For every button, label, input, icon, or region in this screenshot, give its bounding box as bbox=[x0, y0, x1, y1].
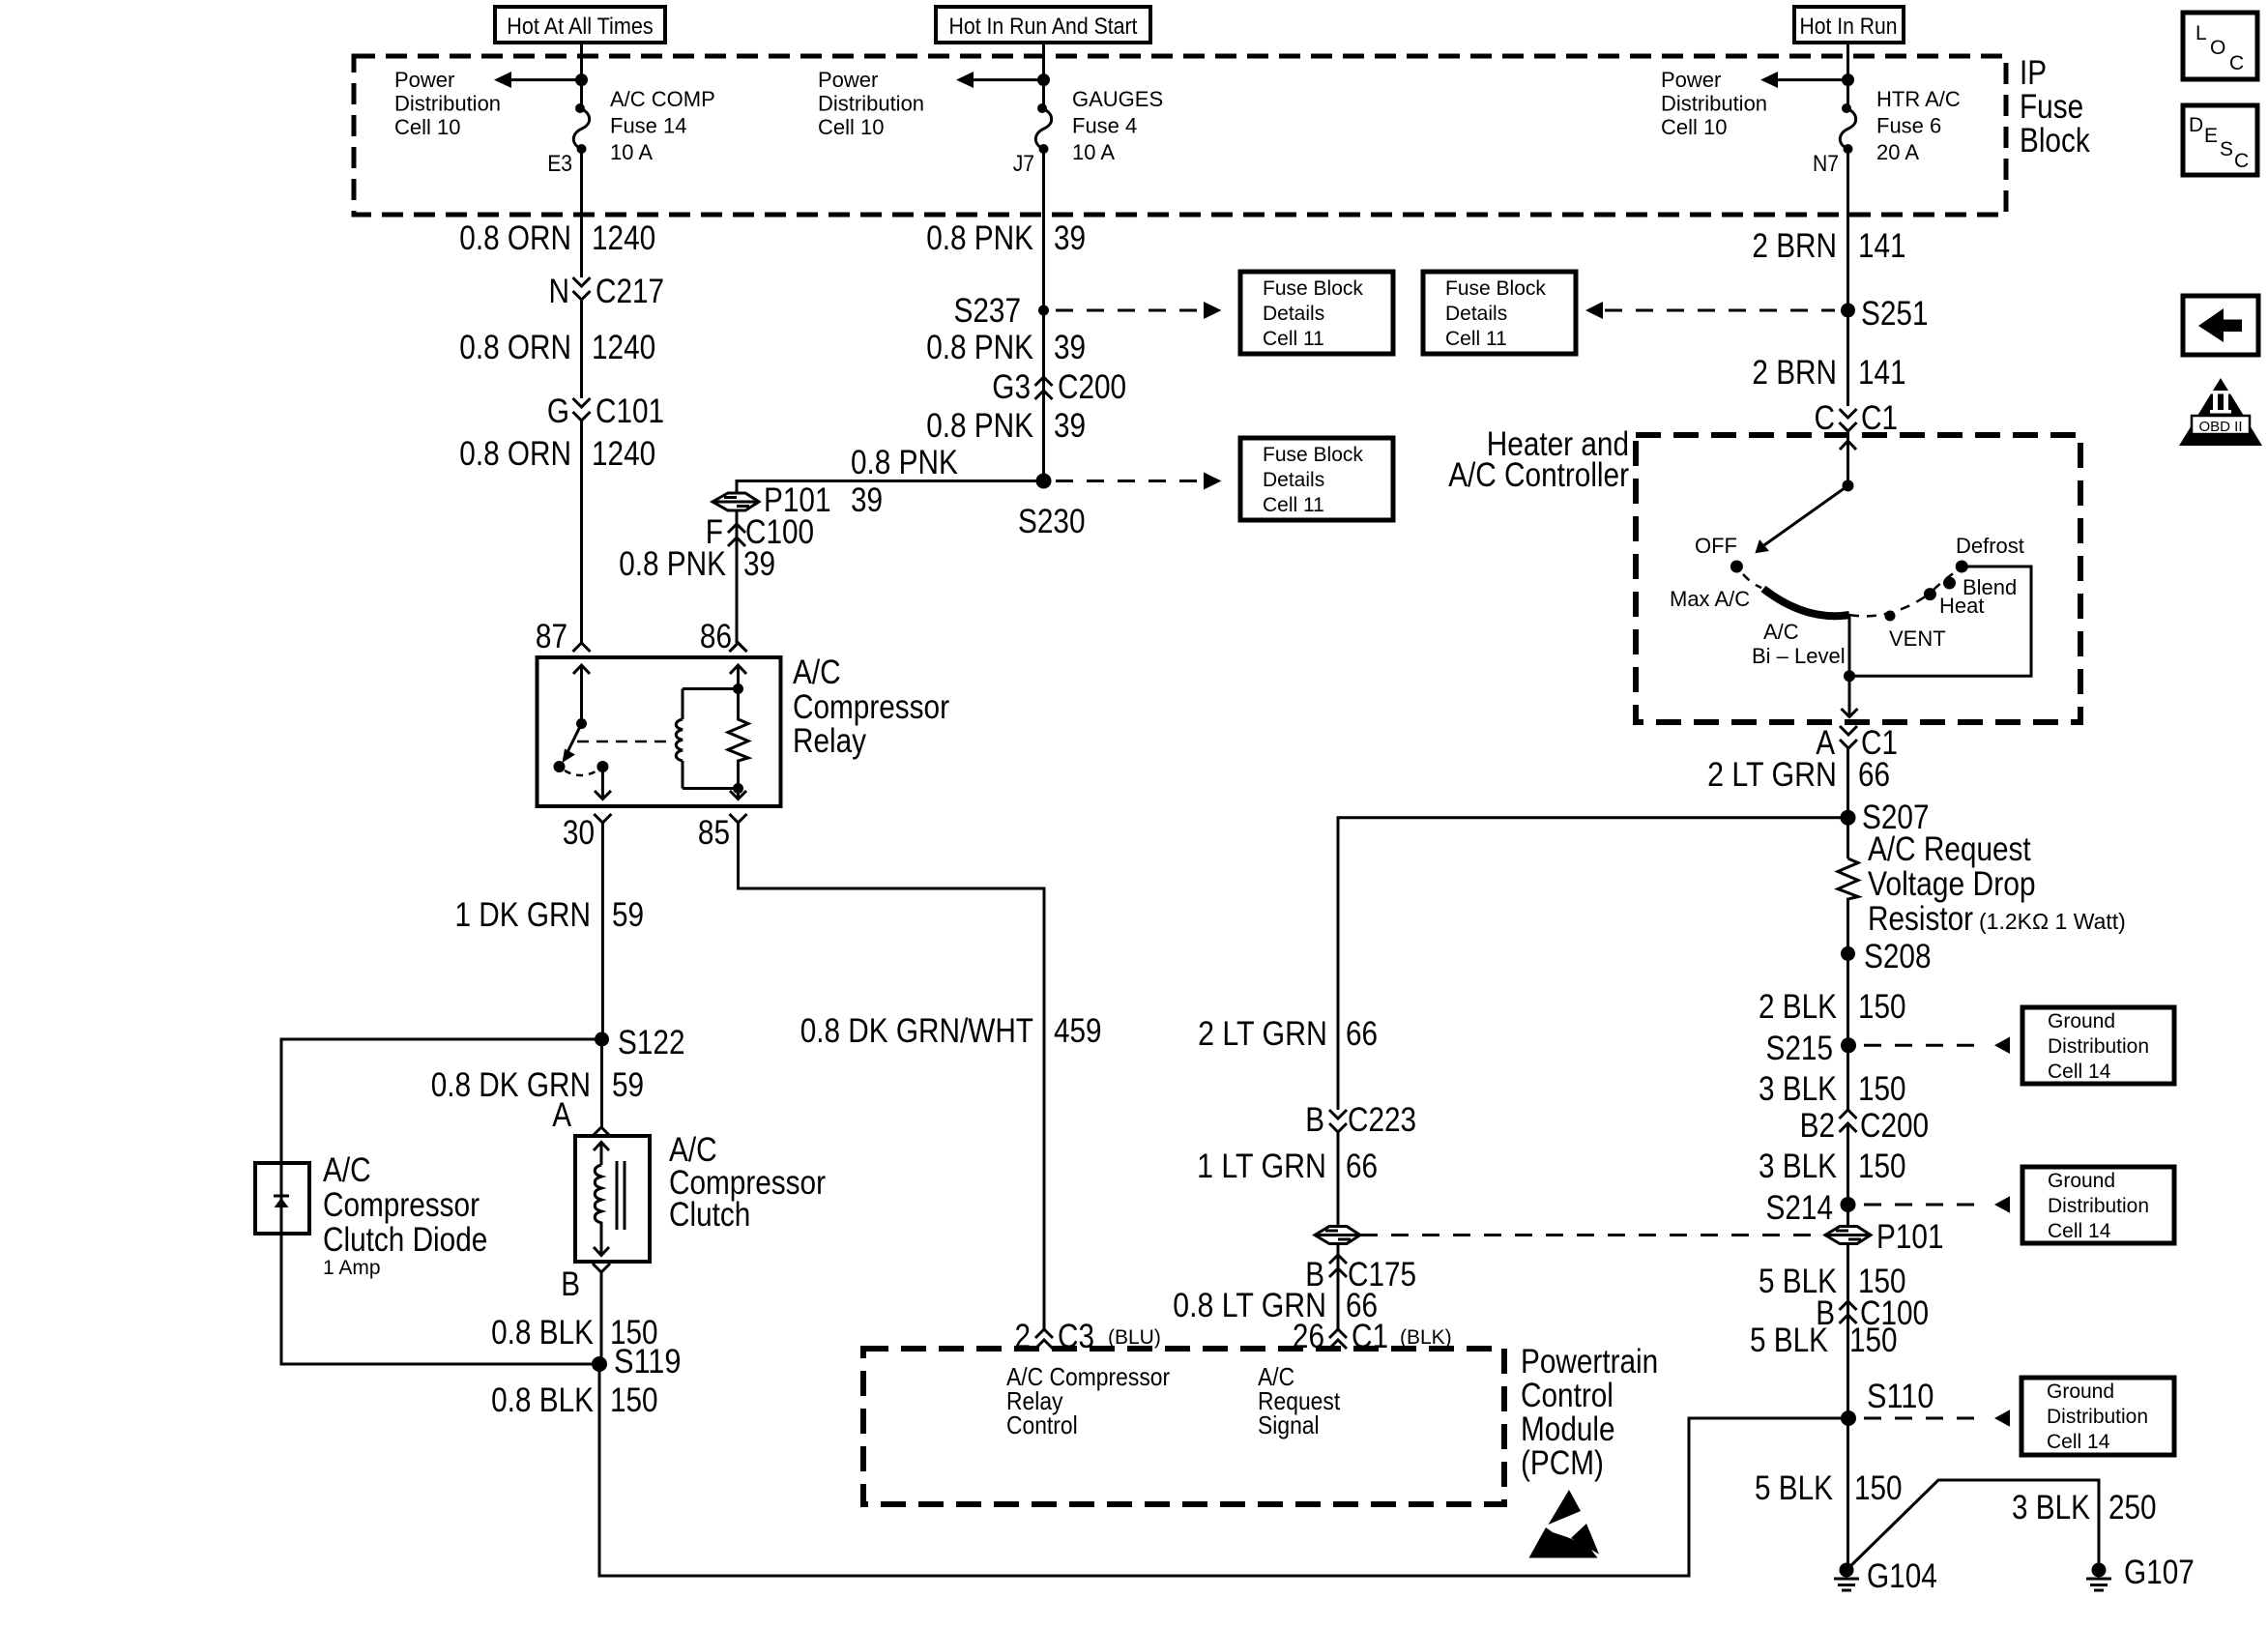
dashed arrow S251 to fuse block details 2 bbox=[1605, 309, 1835, 312]
svg-text:Hot At All Times: Hot At All Times bbox=[507, 14, 653, 40]
svg-text:2 BRN: 2 BRN bbox=[1752, 227, 1837, 265]
svg-text:P101: P101 bbox=[1876, 1218, 1944, 1256]
svg-text:Power: Power bbox=[1661, 68, 1721, 92]
svg-text:150: 150 bbox=[1858, 1148, 1906, 1185]
arrow to power distribution bbox=[509, 78, 582, 81]
svg-text:Cell 11: Cell 11 bbox=[1263, 328, 1324, 350]
svg-text:0.8 PNK: 0.8 PNK bbox=[926, 219, 1033, 257]
relay pin30 arrow down bbox=[595, 767, 611, 799]
svg-text:OBD II: OBD II bbox=[2198, 419, 2242, 435]
svg-text:B: B bbox=[1305, 1101, 1324, 1139]
relay contact 30b bbox=[596, 761, 608, 772]
svg-text:1 DK GRN: 1 DK GRN bbox=[455, 896, 592, 934]
node S251 bbox=[1841, 304, 1855, 318]
svg-text:59: 59 bbox=[612, 1066, 644, 1104]
svg-text:C101: C101 bbox=[596, 392, 664, 430]
svg-text:Cell 14: Cell 14 bbox=[2048, 1061, 2111, 1083]
node S214 bbox=[1841, 1197, 1856, 1212]
ground distribution box 1 bbox=[2022, 1007, 2174, 1084]
wire bbox=[1337, 1132, 1340, 1226]
svg-text:Fuse Block: Fuse Block bbox=[1263, 444, 1363, 466]
connector F C100 bbox=[736, 510, 739, 643]
svg-text:39: 39 bbox=[1054, 329, 1086, 366]
dashed grommet link C175 to P101 bbox=[1360, 1234, 1826, 1236]
svg-text:3 BLK: 3 BLK bbox=[2012, 1489, 2090, 1526]
svg-text:5 BLK: 5 BLK bbox=[1750, 1322, 1828, 1359]
wire bbox=[1042, 228, 1045, 481]
node top junction bbox=[1842, 73, 1854, 86]
svg-text:Distribution: Distribution bbox=[2047, 1406, 2148, 1428]
svg-text:Distribution: Distribution bbox=[1661, 92, 1767, 116]
svg-text:Clutch Diode: Clutch Diode bbox=[323, 1221, 487, 1259]
svg-text:C1: C1 bbox=[1861, 399, 1898, 437]
IP fuse block dashed box bbox=[354, 56, 2006, 215]
svg-text:A/C Controller: A/C Controller bbox=[1448, 456, 1629, 494]
wire bbox=[1846, 43, 1849, 104]
svg-text:Cell 10: Cell 10 bbox=[394, 115, 460, 139]
wire bbox=[1846, 257, 1849, 406]
svg-text:Cell 10: Cell 10 bbox=[1661, 115, 1727, 139]
output junction node bbox=[1844, 670, 1855, 682]
svg-text:Details: Details bbox=[1263, 303, 1324, 325]
wire clutch B to S119 bbox=[600, 1281, 603, 1364]
svg-text:(BLU): (BLU) bbox=[1108, 1326, 1161, 1349]
svg-text:0.8 BLK: 0.8 BLK bbox=[491, 1314, 594, 1352]
wire below fuse bbox=[580, 149, 583, 228]
svg-text:C200: C200 bbox=[1058, 368, 1126, 406]
svg-text:150: 150 bbox=[1858, 1070, 1906, 1108]
diode symbol bbox=[274, 1195, 289, 1198]
Heat contact bbox=[1924, 588, 1936, 600]
svg-text:E: E bbox=[2204, 125, 2218, 147]
svg-text:Compressor: Compressor bbox=[323, 1186, 480, 1224]
VENT contact bbox=[1885, 611, 1896, 622]
svg-text:150: 150 bbox=[610, 1381, 658, 1419]
dashed arc OFF to MaxAC bbox=[1743, 574, 1761, 588]
wire 85 down right down bbox=[739, 831, 1045, 1329]
clutch B fork bbox=[593, 1264, 610, 1281]
node S237 bbox=[1038, 305, 1049, 316]
wire below fuse bbox=[1846, 149, 1849, 257]
svg-text:0.8 PNK: 0.8 PNK bbox=[851, 444, 958, 481]
svg-text:C: C bbox=[2229, 52, 2244, 74]
dashed arrow S230 to fuse block details bbox=[1056, 480, 1202, 482]
svg-text:5 BLK: 5 BLK bbox=[1755, 1469, 1833, 1507]
ground distribution box 2 bbox=[2022, 1167, 2174, 1243]
svg-text:A/C Request: A/C Request bbox=[1868, 830, 2031, 868]
svg-text:A/C: A/C bbox=[323, 1151, 371, 1189]
svg-text:Control: Control bbox=[1006, 1410, 1078, 1439]
svg-text:0.8 PNK: 0.8 PNK bbox=[926, 329, 1033, 366]
fuse F14 symbol bbox=[575, 103, 585, 113]
relay switch blade bbox=[567, 724, 582, 754]
svg-text:Clutch: Clutch bbox=[669, 1196, 750, 1234]
fuse block details box 3 bbox=[1240, 438, 1393, 520]
clutch arrow up bbox=[594, 1142, 609, 1165]
svg-text:Details: Details bbox=[1263, 469, 1324, 491]
fuse F6 symbol bbox=[1842, 103, 1851, 113]
svg-text:Ground: Ground bbox=[2048, 1010, 2115, 1032]
node S122 bbox=[595, 1032, 609, 1047]
svg-text:B2: B2 bbox=[1800, 1107, 1835, 1145]
svg-text:S215: S215 bbox=[1766, 1030, 1834, 1067]
arrow to power distribution bbox=[972, 78, 1044, 81]
svg-text:39: 39 bbox=[743, 545, 775, 583]
svg-text:Ground: Ground bbox=[2048, 1170, 2115, 1192]
svg-text:250: 250 bbox=[2108, 1489, 2157, 1526]
wire S119 to bottom run bbox=[599, 1364, 1848, 1576]
node top junction bbox=[575, 73, 588, 86]
svg-text:150: 150 bbox=[1849, 1322, 1898, 1359]
connector B C175 bbox=[1337, 1244, 1340, 1330]
dashed arrow S214 to ground box 2 bbox=[1864, 1204, 1984, 1206]
wire bbox=[1846, 1244, 1849, 1330]
svg-text:Fuse 4: Fuse 4 bbox=[1072, 114, 1137, 138]
node S215 bbox=[1841, 1037, 1856, 1053]
svg-text:N7: N7 bbox=[1813, 151, 1839, 177]
svg-text:86: 86 bbox=[700, 618, 732, 655]
relay internal resistor bbox=[728, 689, 748, 789]
header box Hot In Run And Start bbox=[936, 7, 1150, 43]
output arrow down bbox=[1842, 676, 1858, 717]
wire below fuse bbox=[1042, 149, 1045, 228]
OFF contact bbox=[1730, 561, 1743, 573]
pin 86 fork bbox=[730, 643, 747, 652]
clutch plates bbox=[617, 1161, 625, 1230]
dashed arc Heat to Defrost bbox=[1934, 570, 1958, 590]
svg-text:Fuse: Fuse bbox=[2020, 88, 2083, 126]
svg-text:Cell 11: Cell 11 bbox=[1263, 494, 1324, 516]
wire S230 to P101 corner bbox=[737, 481, 1044, 493]
svg-text:Powertrain: Powertrain bbox=[1521, 1343, 1658, 1381]
header box Hot At All Times bbox=[495, 7, 665, 43]
ground G104 bbox=[1840, 1563, 1854, 1578]
svg-text:O: O bbox=[2210, 37, 2225, 59]
svg-text:Power: Power bbox=[394, 68, 454, 92]
svg-text:J7: J7 bbox=[1013, 151, 1034, 177]
diode wire through bbox=[281, 1163, 599, 1364]
svg-text:Fuse Block: Fuse Block bbox=[1445, 277, 1546, 300]
svg-text:B: B bbox=[561, 1265, 580, 1303]
wire bbox=[1846, 1315, 1849, 1570]
dashed arrow S237 to fuse block details bbox=[1056, 309, 1202, 312]
switch pivot node bbox=[1843, 480, 1854, 491]
svg-text:Distribution: Distribution bbox=[2048, 1195, 2149, 1217]
relay contact dashed throw bbox=[565, 770, 597, 775]
svg-text:L: L bbox=[2195, 22, 2207, 44]
svg-text:Cell 14: Cell 14 bbox=[2047, 1431, 2110, 1453]
defrost loop wire bbox=[1849, 567, 2031, 676]
svg-text:Block: Block bbox=[2020, 122, 2090, 160]
relay contact 30a bbox=[554, 761, 566, 772]
svg-text:2 BLK: 2 BLK bbox=[1759, 988, 1837, 1026]
svg-text:39: 39 bbox=[851, 481, 883, 519]
svg-text:39: 39 bbox=[1054, 407, 1086, 445]
svg-text:Resistor: Resistor bbox=[1868, 900, 1973, 938]
svg-text:1240: 1240 bbox=[592, 435, 655, 473]
svg-text:66: 66 bbox=[1346, 1148, 1378, 1185]
svg-text:S119: S119 bbox=[614, 1343, 682, 1381]
svg-text:Cell 10: Cell 10 bbox=[818, 115, 884, 139]
svg-text:N: N bbox=[549, 273, 570, 310]
svg-text:GAUGES: GAUGES bbox=[1072, 87, 1163, 111]
svg-text:459: 459 bbox=[1054, 1012, 1102, 1050]
fuse block details box 2 bbox=[1423, 272, 1576, 354]
svg-text:10 A: 10 A bbox=[610, 140, 653, 164]
svg-text:Defrost: Defrost bbox=[1956, 534, 2024, 558]
grommet P101 (at C100) bbox=[712, 493, 759, 510]
svg-text:D: D bbox=[2189, 114, 2203, 136]
svg-text:Signal: Signal bbox=[1258, 1410, 1320, 1439]
wire bbox=[580, 421, 583, 643]
svg-text:0.8 ORN: 0.8 ORN bbox=[459, 435, 571, 473]
svg-text:Voltage Drop: Voltage Drop bbox=[1868, 865, 2036, 903]
connector G C101 bbox=[573, 398, 591, 421]
relay pin87 arrow up bbox=[573, 665, 590, 724]
svg-text:C200: C200 bbox=[1860, 1107, 1929, 1145]
connector A C1 bbox=[1840, 726, 1857, 748]
svg-text:Bi – Level: Bi – Level bbox=[1752, 644, 1846, 668]
svg-text:0.8 ORN: 0.8 ORN bbox=[459, 219, 571, 257]
svg-text:87: 87 bbox=[536, 618, 567, 655]
svg-text:3 BLK: 3 BLK bbox=[1759, 1070, 1837, 1108]
fuse block details box 1 bbox=[1240, 272, 1393, 354]
svg-text:S251: S251 bbox=[1861, 295, 1929, 333]
svg-text:C: C bbox=[1815, 399, 1836, 437]
svg-text:(1.2KΩ 1 Watt): (1.2KΩ 1 Watt) bbox=[1979, 909, 2126, 934]
svg-text:Ground: Ground bbox=[2047, 1381, 2114, 1403]
wire bbox=[580, 228, 583, 277]
relay mech link dashed bbox=[577, 741, 674, 743]
svg-text:E3: E3 bbox=[547, 151, 572, 177]
svg-text:VENT: VENT bbox=[1889, 626, 1946, 651]
svg-text:Max A/C: Max A/C bbox=[1670, 587, 1750, 611]
OBD II triangle bbox=[2179, 378, 2262, 446]
svg-text:1 Amp: 1 Amp bbox=[323, 1257, 381, 1279]
svg-text:S230: S230 bbox=[1018, 503, 1086, 540]
svg-text:2 BRN: 2 BRN bbox=[1752, 354, 1837, 392]
DESC box bbox=[2183, 105, 2257, 175]
svg-text:1240: 1240 bbox=[592, 219, 655, 257]
wire S207 horizontal and down bbox=[1338, 818, 1848, 1110]
node S208 bbox=[1841, 946, 1855, 961]
pin 85 fork bbox=[730, 814, 747, 831]
svg-text:A/C: A/C bbox=[793, 654, 841, 691]
pin 87 fork bbox=[573, 643, 591, 652]
svg-text:C223: C223 bbox=[1348, 1101, 1416, 1139]
svg-text:3 BLK: 3 BLK bbox=[1759, 1148, 1837, 1185]
connector 26 C1 (BLK) into PCM bbox=[1329, 1329, 1347, 1349]
svg-text:2 LT GRN: 2 LT GRN bbox=[1198, 1015, 1327, 1053]
svg-text:0.8 ORN: 0.8 ORN bbox=[459, 329, 571, 366]
connector B C100 bbox=[1840, 1301, 1857, 1323]
wiper track thick arc bbox=[1763, 589, 1849, 616]
connector C C1 bbox=[1840, 409, 1857, 431]
svg-text:Hot In Run: Hot In Run bbox=[1800, 14, 1898, 40]
svg-text:66: 66 bbox=[1346, 1015, 1378, 1053]
svg-text:Distribution: Distribution bbox=[818, 92, 924, 116]
grommet P101 right column bbox=[1825, 1227, 1871, 1244]
grommet at C175 bbox=[1315, 1227, 1360, 1244]
wire bbox=[1846, 748, 1849, 858]
svg-text:S214: S214 bbox=[1766, 1189, 1834, 1227]
arrow to power distribution bbox=[1776, 78, 1848, 81]
switch wiper arm bbox=[1761, 485, 1848, 547]
connector B2 C200 bbox=[1840, 1110, 1857, 1132]
clutch arrow down bbox=[594, 1223, 609, 1256]
svg-text:S: S bbox=[2220, 138, 2233, 160]
ground G107 bbox=[2092, 1563, 2107, 1578]
svg-text:Compressor: Compressor bbox=[793, 688, 949, 726]
svg-text:141: 141 bbox=[1858, 354, 1906, 392]
svg-text:39: 39 bbox=[1054, 219, 1086, 257]
node S110 bbox=[1841, 1410, 1856, 1426]
wiper output wire bbox=[1848, 615, 1851, 676]
svg-text:S208: S208 bbox=[1864, 938, 1932, 975]
svg-text:Relay: Relay bbox=[793, 722, 866, 760]
svg-text:20 A: 20 A bbox=[1876, 140, 1919, 164]
svg-text:A/C COMP: A/C COMP bbox=[610, 87, 715, 111]
wire S122 to diode top bbox=[281, 1039, 602, 1163]
svg-text:Distribution: Distribution bbox=[2048, 1035, 2149, 1058]
svg-text:S110: S110 bbox=[1867, 1378, 1934, 1415]
wire G104 diagonal to G107 bbox=[1846, 1480, 2099, 1570]
svg-text:Fuse 6: Fuse 6 bbox=[1876, 114, 1941, 138]
header box Hot In Run bbox=[1794, 7, 1904, 43]
relay pin85 arrow down bbox=[730, 789, 746, 800]
dashed arrow S110 to ground box 3 bbox=[1864, 1417, 1984, 1420]
svg-text:G: G bbox=[547, 392, 569, 430]
svg-text:1 LT GRN: 1 LT GRN bbox=[1197, 1148, 1326, 1185]
svg-text:Details: Details bbox=[1445, 303, 1507, 325]
svg-text:150: 150 bbox=[1858, 988, 1906, 1026]
svg-text:OFF: OFF bbox=[1695, 534, 1737, 558]
svg-text:0.8 PNK: 0.8 PNK bbox=[619, 545, 726, 583]
node S119 bbox=[592, 1356, 607, 1372]
wire bbox=[580, 300, 583, 398]
svg-text:G104: G104 bbox=[1867, 1557, 1937, 1595]
svg-text:150: 150 bbox=[1854, 1469, 1903, 1507]
dashed arrow S215 to ground box 1 bbox=[1864, 1044, 1984, 1047]
back arrow box bbox=[2183, 296, 2258, 355]
svg-text:S122: S122 bbox=[618, 1024, 685, 1061]
svg-text:Cell 14: Cell 14 bbox=[2048, 1220, 2111, 1242]
svg-text:0.8 PNK: 0.8 PNK bbox=[926, 407, 1033, 445]
svg-text:C: C bbox=[2234, 150, 2249, 172]
A/C request voltage drop resistor bbox=[1838, 858, 1858, 953]
node S207 bbox=[1841, 810, 1856, 826]
svg-text:Fuse 14: Fuse 14 bbox=[610, 114, 687, 138]
relay coil bottom wire bbox=[683, 787, 739, 790]
node S230 bbox=[1036, 474, 1052, 489]
LOC box bbox=[2183, 13, 2257, 79]
svg-text:0.8 DK GRN/WHT: 0.8 DK GRN/WHT bbox=[800, 1012, 1033, 1050]
connector 2 C3 (BLU) into PCM bbox=[1035, 1329, 1053, 1349]
svg-text:A: A bbox=[552, 1096, 571, 1134]
wire bbox=[1042, 43, 1045, 104]
pin 30 fork bbox=[594, 814, 611, 831]
svg-text:30: 30 bbox=[563, 814, 595, 852]
svg-text:59: 59 bbox=[612, 896, 644, 934]
wire bbox=[580, 43, 583, 104]
svg-text:Distribution: Distribution bbox=[394, 92, 501, 116]
wire bbox=[1846, 1123, 1849, 1227]
svg-text:2 LT GRN: 2 LT GRN bbox=[1707, 756, 1837, 794]
svg-text:66: 66 bbox=[1858, 756, 1890, 794]
svg-text:1240: 1240 bbox=[592, 329, 655, 366]
svg-text:G3: G3 bbox=[992, 368, 1031, 406]
svg-text:HTR A/C: HTR A/C bbox=[1876, 87, 1961, 111]
relay coil top wire bbox=[683, 687, 739, 690]
svg-text:IP: IP bbox=[2020, 54, 2047, 92]
clutch A fork bbox=[593, 1127, 610, 1136]
ESD symbol bbox=[1549, 1490, 1582, 1525]
Defrost contact bbox=[1956, 561, 1968, 573]
svg-text:Blend: Blend bbox=[1963, 575, 2017, 599]
pin 86 wire top fork at relay drawn above bbox=[730, 643, 747, 652]
svg-text:10 A: 10 A bbox=[1072, 140, 1115, 164]
svg-text:S237: S237 bbox=[954, 292, 1022, 330]
svg-text:Cell 11: Cell 11 bbox=[1445, 328, 1507, 350]
relay coil bbox=[682, 689, 684, 789]
svg-text:C217: C217 bbox=[596, 273, 664, 310]
connector G3 C200 bbox=[1035, 377, 1053, 399]
dashed arc VENT to Heat bbox=[1849, 594, 1930, 616]
svg-text:A/C: A/C bbox=[1763, 620, 1799, 644]
wire S122 to clutch A bbox=[600, 1039, 603, 1127]
svg-text:G107: G107 bbox=[2124, 1554, 2195, 1591]
relay switch common node bbox=[576, 718, 587, 729]
svg-text:0.8 BLK: 0.8 BLK bbox=[491, 1381, 594, 1419]
svg-text:(BLK): (BLK) bbox=[1400, 1326, 1452, 1349]
fuse F4 symbol bbox=[1037, 103, 1047, 113]
svg-text:141: 141 bbox=[1858, 227, 1906, 265]
Blend contact bbox=[1943, 577, 1956, 590]
connector N C217 bbox=[573, 277, 591, 300]
wire bbox=[1846, 953, 1849, 1110]
svg-text:Fuse Block: Fuse Block bbox=[1263, 277, 1363, 300]
switch feed arrow bbox=[1840, 431, 1856, 485]
clutch coil bbox=[595, 1165, 601, 1235]
svg-text:Control: Control bbox=[1521, 1377, 1614, 1414]
wire 30 to S122 bbox=[601, 831, 604, 1039]
svg-text:85: 85 bbox=[698, 814, 730, 852]
node top junction bbox=[1037, 73, 1050, 86]
svg-text:Module: Module bbox=[1521, 1410, 1615, 1448]
svg-text:Power: Power bbox=[818, 68, 878, 92]
svg-text:Hot In Run And Start: Hot In Run And Start bbox=[949, 14, 1138, 40]
relay pin86 arrow up bbox=[730, 665, 746, 689]
ground distribution box 3 bbox=[2021, 1378, 2174, 1455]
connector B C223 bbox=[1329, 1110, 1347, 1132]
svg-text:(PCM): (PCM) bbox=[1521, 1444, 1604, 1482]
